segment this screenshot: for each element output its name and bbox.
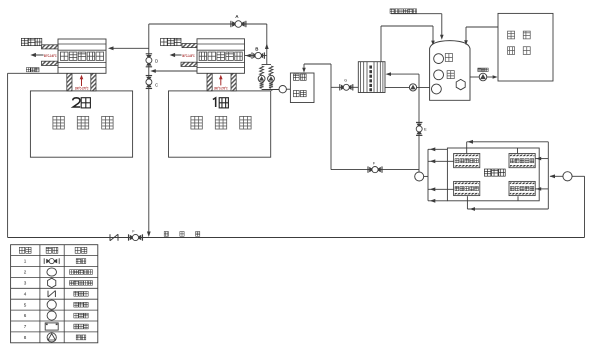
wire: HX2 right stub [535,158,548,160]
oil pump branch right: spring-pump-spring [269,66,273,75]
exhaust outlet arrow (No.1) [173,54,182,56]
wire: plate-HX left line y87.3 [331,86,358,88]
wire: HX1 top riser [466,142,468,154]
wire: center valve column x149 [148,24,150,234]
legend header 品名 [75,247,80,253]
wire: tank inlet arrow left [432,26,434,41]
legend sym1 ball valve [43,258,45,264]
wire: left riser [7,73,9,237]
label 水箱 [445,54,452,62]
legend name 球阀 [76,259,80,264]
wire: valve B line [245,55,267,57]
hot water pump 热水泵 [479,73,487,81]
svg-text:E: E [424,126,427,131]
wire: bus top stub y149.3 [428,148,447,150]
label 导热油 (bottom line) [164,232,168,237]
label 预热炉 [484,169,490,176]
svg-text:C: C [155,82,158,87]
heat exchanger No.2 二号换热器 [509,154,535,168]
label 2号 [73,98,80,107]
legend header 符号 [46,247,51,253]
wire: HX2 top stub [517,148,519,154]
flue riser right (No.1, hatched) [231,73,236,91]
legend name 水泵 [76,335,80,340]
tank sensor circle 1 [434,54,444,64]
red flue arrow up (No.2) [81,78,83,87]
legend sym5 circle [47,300,56,309]
wire: oil return line No.2 (left horizontal) [8,72,58,74]
tank sensor circle 2 [434,70,444,80]
flue riser left (No.2, hatched) [67,73,72,91]
wire: right riser x584.5 [584,176,586,237]
legend sym4 check valve [47,291,49,297]
valve D [146,53,152,55]
heat recovery unit 余热回收机 box (No.2) [58,39,106,73]
wire: HX3 bottom riser [466,196,468,209]
preheater furnace 预热炉 box [447,148,539,201]
heat recovery unit 余热回收机 box (No.1) [197,39,245,74]
svg-text:6: 6 [24,313,27,318]
svg-text:B: B [255,47,258,52]
legend name 电磁阀 [74,324,78,329]
svg-text:8: 8 [24,335,27,340]
legend name 水位传感器 [70,270,74,275]
legend sym2 ellipse [47,268,57,276]
wire: riser x266.8 with up arrow [266,24,268,65]
exhaust duct upper (No.2, hatched) [42,45,59,49]
wire: oil line y169.6 to preheater pump [331,169,419,171]
wire: bus bottom stub y200.8 [428,200,447,202]
label 排烟口 (No.1) [161,38,168,45]
wire: HX top riser to tank line [380,26,382,62]
exhaust duct lower (No.2, hatched) [42,61,59,65]
wire: bottom main oil line [8,237,585,239]
svg-text:80°C-140°C: 80°C-140°C [44,54,57,58]
wire: pump P3 to right riser [572,175,584,177]
wire: HX3 left stub y189.3 [428,188,454,190]
legend name 单向阀 [74,291,78,296]
legend sym6 circle [47,311,56,320]
tank hexagon sensor [456,79,465,89]
legend name 温度表 [74,313,78,318]
water tank 水箱 outline [430,41,470,101]
water pump (HX to tank) [409,84,416,91]
label 热水泵 tiny [478,68,481,71]
tank sensor circle 3 [432,84,442,94]
wire: pump P2 to left bus stub [424,175,428,177]
arrow on top line [468,140,474,144]
wire: twin-pump branch bottom header [262,89,280,91]
check valve on bottom line [109,234,111,241]
label 导热油 (left oil line) [26,68,30,72]
heat exchanger No.4 四号换热器 [509,181,535,195]
wire: right pump feed y176.3 [550,175,563,177]
wire: HX4 bottom stub [517,196,519,201]
plate heat exchanger 板式换热器 [358,62,385,93]
valve A [230,21,232,27]
oil tank 导热油箱 box [290,73,314,103]
wire: HX right input y74.1 with arrow [387,73,419,75]
ball valve on bottom line [128,234,130,240]
svg-text:7: 7 [24,324,27,329]
arrow on bottom line [470,207,476,211]
boiler furnace 1号搪塑炉 box [169,91,271,157]
label 导热油箱 [293,74,299,80]
boiler furnace 2号搪塑炉 box [30,91,132,157]
materials warming room 材料暖房 box [498,13,553,81]
label 搪塑炉 (No.2) [53,116,64,129]
pump P2 (preheater loop left) [415,172,424,181]
svg-text:2: 2 [24,270,27,275]
wire: preheater right bus [547,142,549,209]
wire: HX1 left stub y161.3 [428,160,454,162]
wire: pump to warm room with arrow [487,76,493,78]
motor valve at plate-HX left [339,84,341,90]
valve E [416,121,422,123]
valve C [146,75,152,77]
svg-text:300°C-270°C: 300°C-270°C [214,86,228,90]
label 1号 [213,98,216,107]
valve F2 on y169.6 [367,166,369,172]
legend sym8 pump circle+triangle [47,333,56,342]
svg-text:3: 3 [24,281,27,286]
wire: pump to oil tank [286,88,290,90]
oil pump branch left: spring-pump-spring [260,66,264,75]
exhaust outlet arrow (No.2) [34,54,44,56]
wire: No.1 recovery left outlet to valve column [152,70,197,72]
red flue arrow up (No.1) [220,78,222,86]
heat exchanger No.3 三号换热器 [454,181,480,195]
legend header 序号 [19,247,24,253]
wire: soft water inlet line [391,13,442,15]
valve B [251,52,253,58]
legend sym7 solenoid rect [45,323,58,330]
wire: preheater riser x419 [418,74,420,172]
svg-text:300°C-270°C: 300°C-270°C [75,86,89,90]
heat exchanger No.1 一号换热器 [454,154,480,168]
label 材料暖房 [508,31,515,39]
svg-text:G: G [344,79,347,83]
svg-text:1: 1 [24,259,27,264]
wire: twin-pump branch top header [262,64,271,66]
wire: top oil line y24 [149,23,267,25]
legend name 温度传感器 [70,281,74,286]
label 余热回收机 (No.2) [60,52,68,60]
wire: oil tank top feed with down arrow [303,64,305,70]
svg-text:D: D [155,59,158,64]
wire: HX right outlet y87.4 to tank [385,86,430,88]
label 排烟口 (No.2) [21,38,28,45]
label 软水补水进口 [390,9,394,13]
svg-text:80°C-140°C: 80°C-140°C [182,54,195,58]
wire: vertical x331 [330,64,332,170]
wire: warm room return y27 [466,26,498,28]
pump P3 (preheater right) [563,172,572,181]
flue riser right (No.2, hatched) [91,73,96,91]
wire: preheater top line y141.8 [467,141,549,143]
arrow into No.1 recovery right [245,54,251,58]
legend sym3 hexagon [48,278,56,287]
wire: preheater left bus [427,149,429,201]
svg-text:5: 5 [24,302,27,307]
pump P1 (oil tank feed) [279,86,286,93]
label 余热回收机 (No.1) [199,52,207,60]
wire: preheater bottom line y209 [467,208,548,210]
flue riser left (No.1, hatched) [207,73,212,91]
wire: branch to No.2 recovery unit y48.3 [110,47,149,49]
exhaust duct upper (No.1, hatched) [182,44,197,48]
plate HX vertical label dashes [369,66,372,69]
svg-text:4: 4 [24,291,27,296]
wire: HX4 right stub [535,188,548,190]
exhaust duct lower (No.1, hatched) [181,62,197,66]
legend table frame [11,245,98,343]
wire: tank outlet to warm room pump [470,76,479,78]
label 搪塑炉 (No.1) [191,116,202,129]
legend name 压力表 [74,302,78,307]
wire: stub down to boiler corner [271,90,273,92]
down arrow joining bottom line [147,232,151,238]
